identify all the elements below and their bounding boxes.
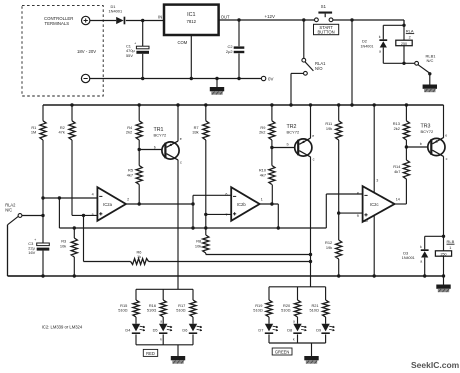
svg-text:N/O: N/O — [315, 66, 323, 71]
svg-text:0V: 0V — [268, 77, 273, 82]
svg-text:D2: D2 — [362, 39, 367, 44]
svg-text:10k: 10k — [60, 243, 66, 248]
svg-text:IC2: LM339 or LM324: IC2: LM339 or LM324 — [42, 324, 83, 329]
svg-text:COM: COM — [178, 40, 188, 45]
svg-text:2μ2: 2μ2 — [226, 49, 233, 54]
svg-text:a: a — [160, 319, 162, 323]
svg-text:2k2: 2k2 — [259, 130, 265, 135]
svg-text:TERMINALS: TERMINALS — [45, 21, 70, 26]
svg-text:9: 9 — [357, 214, 359, 218]
svg-text:4k7: 4k7 — [127, 172, 133, 177]
svg-text:b: b — [420, 142, 422, 146]
svg-text:250: 250 — [441, 252, 447, 256]
svg-text:+: + — [134, 41, 136, 45]
svg-text:12: 12 — [364, 219, 368, 223]
svg-text:8: 8 — [357, 191, 359, 195]
svg-text:RLA: RLA — [406, 28, 414, 33]
svg-text:510Ω: 510Ω — [253, 308, 262, 313]
svg-text:c: c — [446, 157, 448, 161]
svg-text:SeekIC.com: SeekIC.com — [411, 360, 460, 370]
svg-text:N/C: N/C — [427, 58, 434, 63]
svg-text:2k2: 2k2 — [126, 130, 132, 135]
svg-text:GREEN: GREEN — [275, 349, 290, 354]
svg-text:510Ω: 510Ω — [309, 308, 318, 313]
svg-text:510Ω: 510Ω — [147, 308, 156, 313]
svg-text:5: 5 — [92, 213, 94, 217]
svg-text:D6: D6 — [182, 328, 187, 333]
svg-text:+: + — [34, 238, 36, 242]
svg-text:250: 250 — [401, 42, 407, 46]
svg-text:IC1: IC1 — [187, 12, 195, 18]
svg-text:IC2c: IC2c — [370, 202, 379, 207]
svg-text:4: 4 — [92, 192, 94, 196]
svg-text:BCY72: BCY72 — [421, 129, 434, 134]
svg-text:S1: S1 — [321, 4, 327, 9]
svg-text:b: b — [154, 145, 156, 149]
svg-text:D4: D4 — [125, 328, 131, 333]
svg-text:OUT: OUT — [221, 14, 230, 19]
svg-text:510Ω: 510Ω — [281, 308, 290, 313]
svg-text:19k: 19k — [326, 245, 332, 250]
svg-text:7: 7 — [225, 213, 227, 217]
svg-text:BCY72: BCY72 — [154, 132, 167, 137]
svg-text:3: 3 — [376, 179, 378, 183]
svg-text:IC2b: IC2b — [237, 202, 247, 207]
svg-text:18V - 20V: 18V - 20V — [77, 49, 96, 54]
svg-text:1k: 1k — [137, 254, 141, 259]
svg-text:1N4001: 1N4001 — [109, 9, 123, 14]
svg-text:IN: IN — [158, 14, 162, 19]
svg-text:2: 2 — [409, 35, 411, 39]
svg-text:D7: D7 — [258, 328, 263, 333]
svg-text:1M: 1M — [31, 130, 36, 135]
svg-text:RED: RED — [146, 351, 155, 356]
svg-text:e: e — [445, 134, 447, 138]
svg-text:BUTTON: BUTTON — [318, 29, 335, 34]
svg-text:k: k — [379, 35, 381, 39]
svg-text:510Ω: 510Ω — [176, 308, 185, 313]
svg-text:RLB: RLB — [447, 239, 455, 244]
svg-text:a: a — [420, 260, 422, 264]
svg-text:4k7: 4k7 — [394, 169, 400, 174]
svg-text:e: e — [312, 134, 314, 138]
svg-text:D8: D8 — [287, 328, 292, 333]
svg-text:4k7: 4k7 — [260, 172, 266, 177]
svg-text:1N4001: 1N4001 — [402, 256, 415, 260]
svg-text:33k: 33k — [192, 130, 198, 135]
svg-text:b: b — [287, 142, 289, 146]
svg-text:510Ω: 510Ω — [118, 308, 127, 313]
svg-text:BCY72: BCY72 — [287, 129, 300, 134]
svg-text:D3: D3 — [403, 250, 408, 255]
svg-text:16V: 16V — [28, 250, 35, 255]
svg-text:14: 14 — [396, 198, 400, 202]
svg-text:c: c — [180, 161, 182, 165]
svg-text:a: a — [293, 319, 295, 323]
svg-text:c: c — [313, 158, 315, 162]
svg-text:47k: 47k — [59, 130, 65, 135]
svg-text:19k: 19k — [326, 126, 332, 131]
svg-text:1N4001: 1N4001 — [361, 44, 374, 48]
svg-text:7812: 7812 — [187, 19, 197, 24]
svg-text:D5: D5 — [153, 328, 158, 333]
svg-text:2: 2 — [127, 198, 129, 202]
svg-text:55V: 55V — [126, 53, 133, 58]
svg-text:1: 1 — [261, 198, 263, 202]
svg-text:N/C: N/C — [5, 208, 12, 213]
svg-text:+12V: +12V — [265, 14, 275, 19]
svg-text:10k: 10k — [195, 243, 201, 248]
svg-text:e: e — [180, 137, 182, 141]
svg-text:1: 1 — [449, 246, 451, 250]
svg-text:2k2: 2k2 — [394, 126, 400, 131]
svg-text:a: a — [379, 50, 381, 54]
svg-text:D9: D9 — [316, 328, 321, 333]
svg-text:k: k — [420, 245, 422, 249]
svg-text:IC2a: IC2a — [103, 202, 113, 207]
